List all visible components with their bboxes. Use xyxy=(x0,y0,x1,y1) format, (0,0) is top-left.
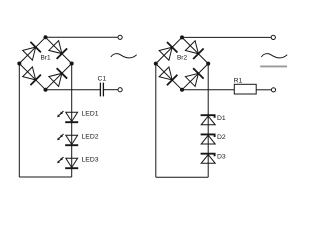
node Br1 bottom junction dot xyxy=(44,88,48,92)
LED LED1 triangle xyxy=(66,112,78,121)
resistor R1 body xyxy=(234,84,256,94)
LED LED1 emission arrow 2 xyxy=(57,114,61,118)
bridge Br2 diode lower-right xyxy=(185,68,203,86)
bridge Br2 diode upper-left xyxy=(159,42,177,60)
node Br2 bottom junction dot xyxy=(180,88,184,92)
wire Br1 diamond edge L-T xyxy=(19,37,45,63)
wire Br2 diamond edge L-T xyxy=(156,37,182,63)
wire R1 to terminal xyxy=(256,89,271,91)
capacitor C1 right plate xyxy=(102,83,104,97)
svg-text:LED3: LED3 xyxy=(82,157,99,164)
wire Br1 diamond edge B-R xyxy=(46,64,72,90)
wire Br1 bottom node to C1 xyxy=(46,89,101,91)
diode D2 triangle xyxy=(201,135,215,144)
wire bottom return right circuit xyxy=(156,176,208,178)
DC line symbol right (gray bar) xyxy=(260,66,287,68)
svg-text:LED2: LED2 xyxy=(82,134,99,141)
wire bottom return left circuit xyxy=(19,176,71,178)
svg-text:LED1: LED1 xyxy=(82,111,99,118)
wire Br1 right node down to LED chain and bottom xyxy=(71,64,73,178)
diode D3 cathode bar xyxy=(201,154,215,157)
LED LED3 emission arrow 1 xyxy=(60,157,64,161)
LED LED2 triangle xyxy=(66,135,78,144)
svg-text:Br1: Br1 xyxy=(40,55,51,62)
label D3 xyxy=(217,153,226,160)
label Br2 xyxy=(177,55,188,62)
wire Br1 top node to AC terminal xyxy=(46,36,119,38)
diode D1 cathode bar xyxy=(201,115,215,118)
LED LED2 emission arrow 2 xyxy=(57,137,61,141)
wire Br2 right node down to diode chain and bottom xyxy=(207,64,209,178)
wire left rail up to Br2 left node xyxy=(155,64,157,178)
wire Br2 diamond edge L-B xyxy=(156,64,182,90)
diode D1 triangle xyxy=(201,116,215,125)
label D1 xyxy=(217,115,226,122)
terminal DC left circuit (open circle) xyxy=(118,88,122,92)
label LED3 xyxy=(82,157,99,164)
bridge Br1 diode upper-left xyxy=(23,42,41,60)
wire Br1 diamond edge T-R xyxy=(46,37,72,63)
bridge Br1 diode upper-right xyxy=(49,41,67,59)
wire Br1 diamond edge L-B xyxy=(19,64,45,90)
AC tilde symbol right xyxy=(261,54,287,58)
svg-text:R1: R1 xyxy=(234,77,243,84)
node Br2 top junction dot xyxy=(180,35,184,39)
LED LED3 triangle xyxy=(66,158,78,167)
node Br2 left junction dot xyxy=(154,62,158,66)
label D2 xyxy=(217,134,226,141)
LED LED3 emission arrow 2 xyxy=(57,160,61,164)
label LED1 xyxy=(82,111,99,118)
wire C1 to terminal xyxy=(103,89,118,91)
terminal AC right circuit (open circle) xyxy=(271,35,275,39)
diode D3 triangle xyxy=(201,155,215,164)
LED LED2 emission arrow 1 xyxy=(60,134,64,138)
LED LED2 cathode bar xyxy=(65,144,78,146)
terminal DC right circuit (open circle) xyxy=(271,88,275,92)
wire Br2 diamond edge B-R xyxy=(182,64,208,90)
wire Br2 diamond edge T-R xyxy=(182,37,208,63)
bridge Br2 diode upper-right xyxy=(185,41,203,59)
capacitor C1 left plate xyxy=(99,83,101,97)
svg-text:D3: D3 xyxy=(217,153,226,160)
AC tilde symbol left xyxy=(111,54,137,58)
svg-text:C1: C1 xyxy=(98,76,107,83)
diode D2 cathode bar xyxy=(201,134,215,137)
node Br1 right junction dot xyxy=(70,62,74,66)
svg-text:Br2: Br2 xyxy=(177,55,188,62)
wire Br2 bottom node to R1 xyxy=(182,89,234,91)
LED LED1 cathode bar xyxy=(65,121,78,123)
bridge Br1 diode lower-left xyxy=(23,67,41,85)
label Br1 xyxy=(40,55,51,62)
node Br2 right junction dot xyxy=(206,62,210,66)
label LED2 xyxy=(82,134,99,141)
LED LED1 emission arrow 1 xyxy=(60,111,64,115)
bridge Br2 diode lower-left xyxy=(159,67,177,85)
svg-text:D1: D1 xyxy=(217,115,226,122)
node Br1 left junction dot xyxy=(17,62,21,66)
wire Br2 top node to AC terminal xyxy=(182,36,271,38)
svg-text:D2: D2 xyxy=(217,134,226,141)
LED LED3 cathode bar xyxy=(65,167,78,169)
label R1 xyxy=(234,77,243,84)
wire left rail up to Br1 left node xyxy=(18,64,20,178)
bridge Br1 diode lower-right xyxy=(49,68,67,86)
terminal AC left circuit (open circle) xyxy=(118,35,122,39)
node Br1 top junction dot xyxy=(44,35,48,39)
label C1 xyxy=(98,76,107,83)
